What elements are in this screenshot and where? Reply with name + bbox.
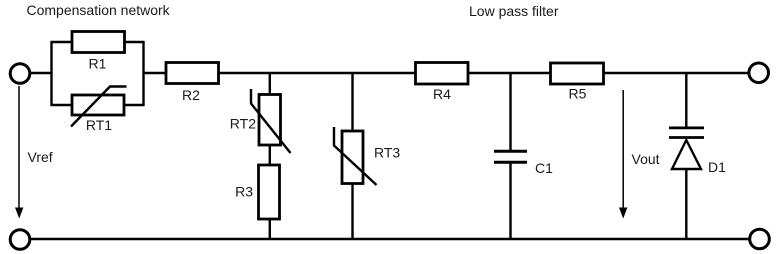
svg-text:R4: R4 (433, 86, 451, 102)
svg-text:Compensation network: Compensation network (27, 2, 171, 18)
svg-text:RT3: RT3 (374, 145, 400, 161)
svg-text:D1: D1 (708, 159, 726, 175)
svg-text:R3: R3 (235, 184, 253, 200)
svg-text:Low pass filter: Low pass filter (469, 3, 559, 19)
svg-text:R2: R2 (182, 87, 200, 103)
svg-text:Vref: Vref (28, 149, 53, 165)
svg-text:RT2: RT2 (230, 116, 256, 132)
svg-text:Vout: Vout (632, 151, 660, 167)
svg-text:R1: R1 (89, 56, 107, 72)
svg-text:R5: R5 (569, 86, 587, 102)
svg-text:C1: C1 (535, 160, 553, 176)
svg-text:RT1: RT1 (86, 117, 112, 133)
